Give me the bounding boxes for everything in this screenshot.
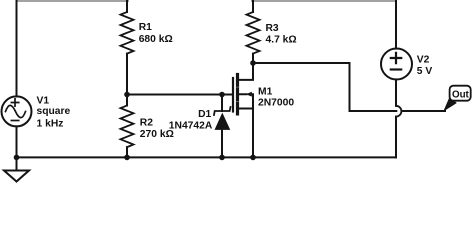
label R1 value bbox=[139, 22, 173, 45]
node junction rail-R2 bbox=[124, 155, 130, 161]
voltage source V2 bbox=[381, 49, 412, 80]
svg-text:1 kHz: 1 kHz bbox=[37, 119, 64, 130]
svg-text:R1: R1 bbox=[139, 22, 152, 33]
label M1 value bbox=[258, 86, 294, 108]
svg-text:5 V: 5 V bbox=[417, 66, 433, 77]
node junction at ground bbox=[14, 155, 20, 161]
wire bottom rail bbox=[17, 156, 397, 158]
voltage source V1 bbox=[2, 96, 32, 126]
svg-text:R3: R3 bbox=[266, 23, 279, 34]
svg-text:square: square bbox=[37, 106, 71, 117]
svg-text:D1: D1 bbox=[198, 109, 211, 120]
node junction rail-D1 bbox=[219, 155, 225, 161]
node flag Out bbox=[443, 86, 471, 112]
wire top rail R3 to V2 bbox=[252, 0, 396, 2]
svg-text:2N7000: 2N7000 bbox=[258, 97, 294, 108]
svg-text:680 kΩ: 680 kΩ bbox=[139, 34, 173, 45]
resistor R1 bbox=[121, 1, 134, 95]
wire drain to out bbox=[253, 63, 445, 111]
node junction gate-D1 bbox=[219, 92, 225, 98]
resistor R2 bbox=[121, 95, 134, 158]
label D1 value bbox=[169, 109, 213, 132]
svg-text:Out: Out bbox=[452, 89, 470, 100]
label R3 value bbox=[266, 23, 297, 46]
wire V2 bottom lead with hop bbox=[396, 79, 401, 157]
zener diode D1 bbox=[214, 95, 231, 158]
node junction drain bbox=[250, 60, 256, 66]
wire V2 top lead bbox=[395, 1, 397, 49]
label V1 value bbox=[37, 96, 71, 130]
svg-text:M1: M1 bbox=[258, 86, 273, 97]
transistor M1 bbox=[233, 63, 253, 157]
wire top rail V1 to R1 bbox=[17, 0, 129, 2]
svg-text:1N4742A: 1N4742A bbox=[169, 121, 213, 132]
svg-text:4.7 kΩ: 4.7 kΩ bbox=[266, 35, 297, 46]
ground bbox=[4, 157, 29, 181]
resistor R3 bbox=[247, 1, 260, 63]
svg-text:R2: R2 bbox=[140, 118, 153, 129]
label R2 value bbox=[140, 118, 174, 141]
wire V1 bottom lead bbox=[16, 126, 18, 157]
node junction gate-left bbox=[124, 92, 130, 98]
node junction rail-source bbox=[250, 155, 256, 161]
wire V1 top lead bbox=[16, 1, 18, 96]
svg-text:V2: V2 bbox=[417, 55, 430, 66]
wire gate node bbox=[127, 94, 232, 96]
label V2 value bbox=[417, 55, 433, 77]
